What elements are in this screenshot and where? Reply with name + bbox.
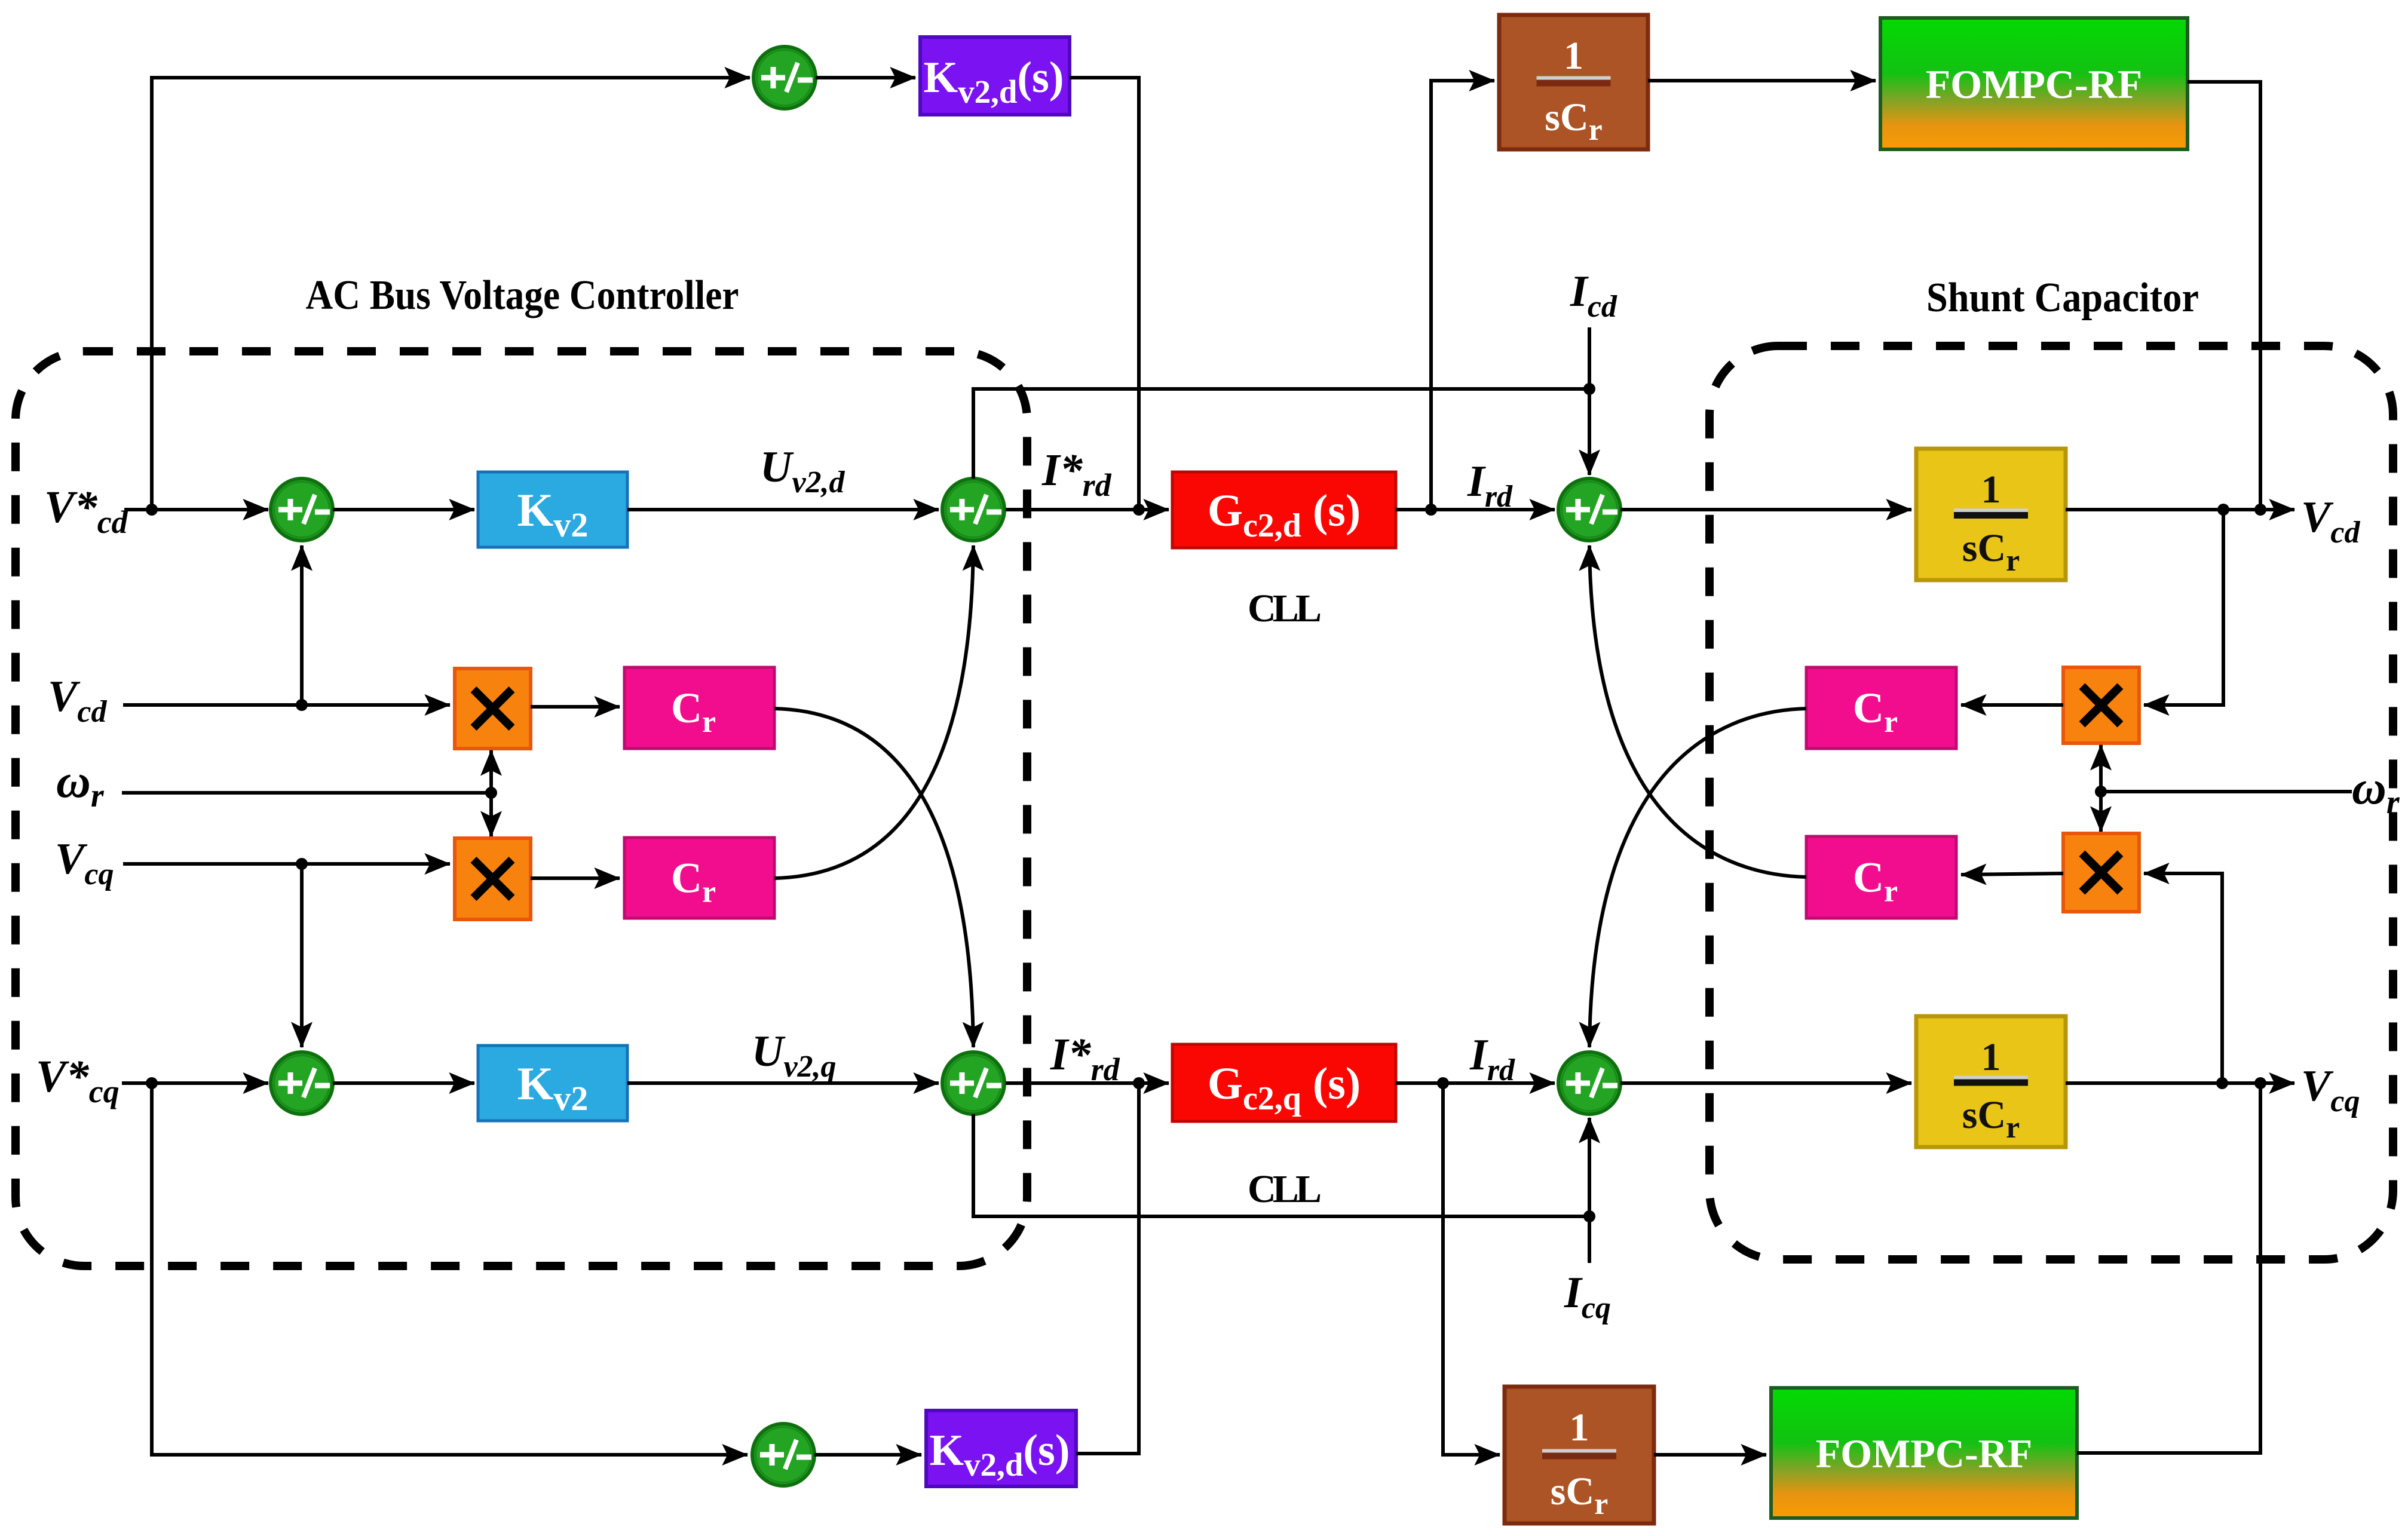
wire X left 1 to Cr left 1 [531,705,620,709]
node dot Vcd branch to multiplier [2217,504,2229,516]
svg-text:FOMPC-RF: FOMPC-RF [1926,62,2143,107]
svg-text:CLL: CLL [1248,1167,1322,1211]
curve Cr right 2 to sum S4 bottom (cross-coupling) [1589,545,1806,877]
svg-text:AC Bus Voltage Controller: AC Bus Voltage Controller [306,272,739,318]
block 1/sCr q-axis (yellow) [1916,1016,2066,1147]
wire S5 to Kv2 block (q) [333,1081,474,1085]
node A: V*cd branch dot [146,504,158,516]
wire omega_r left down into X2 [489,793,493,836]
node dot V*cq branch [146,1077,158,1089]
wire Gc2,d output to sum S4 (I_rd) [1396,508,1555,511]
wire omega_r right down into X2 [2099,792,2103,832]
wire Vcq up to right multiplier X2 [2144,873,2222,1083]
svg-text:CLL: CLL [1248,587,1322,630]
wire S7 to bottom K_v2,d(s) [814,1453,921,1457]
summing junction S6 (+/-) [942,1052,1004,1114]
wire top feedback from V*cd branch up and right to sum S1 [152,78,750,510]
wire X right 2 to Cr right 2 [1961,873,2063,875]
block Cr left 1 (pink) [624,667,774,749]
curve Cr right 1 to sum S8 top (cross-coupling) [1589,709,1806,1047]
svg-text:FOMPC-RF: FOMPC-RF [1816,1431,2033,1476]
node dot Vcq branch to S5 [296,858,308,870]
summing junction S3 (+/-) [942,479,1004,541]
wire Vcd branch up into sum S2 [300,545,304,705]
curve Cr left 2 to sum S3 bottom (cross-coupling) [774,545,973,878]
wire FOMPC-RF bottom output up to Vcq node [2077,1083,2260,1453]
dashed region Shunt Capacitor [1710,346,2393,1259]
wire yellow output to Vcd output arrow [2066,508,2294,511]
wire V*cd input to sum S2 [124,508,268,511]
node dot K_v2,d bottom output joins I*rd line [1133,1077,1145,1089]
wire S8 to yellow 1/sCr (q) [1620,1081,1911,1085]
wire bottom K_v2,d output right and up to I*rd line [1076,1083,1139,1454]
wire S6 to Gc2,q block [1006,1081,1169,1085]
wire X right 1 to Cr right 1 [1961,703,2063,707]
summing junction S5 (+/-) [271,1052,333,1114]
svg-text:1: 1 [1564,34,1583,78]
svg-text:1: 1 [1981,468,2001,511]
svg-text:1: 1 [1570,1406,1589,1449]
block K_v2,d(s) bottom (purple) [926,1411,1076,1486]
wire FOMPC-RF top output down to Vcd node [2188,82,2260,510]
svg-text:Shunt Capacitor: Shunt Capacitor [1926,275,2199,321]
block 1/sCr d-axis (yellow) [1916,449,2066,580]
wire omega_r right input [2101,790,2352,793]
wire Gc2,q output to sum S8 (I_rd) [1396,1081,1555,1085]
summing junction S7 (+/-) [752,1424,814,1486]
block Cr left 2 (pink) [624,838,774,918]
wire I_cq up into sum S8 [1588,1118,1591,1263]
wire S3 top feed from I_cd line (corner at y=651) [973,389,1587,479]
wire bottom feedback from V*cq branch down to sum S7 [152,1083,747,1455]
wire S3 to Gc2,d block [1006,508,1169,511]
block K_v2,d(s) top (purple) [920,37,1070,115]
wire Vcd input to left multiplier X1 [123,703,450,707]
wire brown 1/sCr to FOMPC-RF top [1648,79,1876,82]
svg-text:1: 1 [1981,1035,2001,1079]
block FOMPC-RF top (gradient) [1880,18,2188,149]
block multiplier X left 1 (orange) [455,669,531,749]
wire Vcq input to left multiplier X2 [123,862,450,866]
wire I_cd down into sum S4 [1588,327,1591,475]
block 1/sCr top (brown) [1499,15,1648,149]
wire X left 2 to Cr left 2 [531,876,620,880]
wire K_v2,d(s) output right and down to I*rd node [1070,78,1139,510]
summing junction S4 (+/-) [1558,479,1620,541]
node dot I_cq feed junction [1583,1210,1595,1222]
wire S2 to Kv2 block (d) [333,508,474,511]
dashed region AC Bus Voltage Controller [16,351,1027,1266]
node dot I_cd feed junction [1583,383,1595,395]
summing junction S1 (+/-) [753,47,816,109]
wire omega_r right up into X1 [2099,745,2103,792]
summing junction S8 (+/-) [1558,1052,1620,1114]
node dot K_v2,d output joins I*rd line [1133,504,1145,516]
block Cr right 1 (pink) [1806,667,1956,749]
node dot Gc2,d output branch to 1/sCr [1425,504,1437,516]
node dot Gc2,q output branch to 1/sCr [1437,1077,1449,1089]
block Kv2 d-axis (blue) [478,472,627,547]
wire bottom brown to FOMPC-RF bottom [1654,1453,1766,1457]
block 1/sCr bottom (brown) [1505,1387,1654,1523]
node dot Vcq branch from FOMPC [2254,1077,2266,1089]
block multiplier X right 2 (orange) [2063,833,2139,912]
block Gc2,q(s) (red) [1172,1044,1396,1121]
block Kv2 q-axis (blue) [478,1046,627,1121]
block FOMPC-RF bottom (gradient) [1771,1388,2077,1518]
wire S4 to yellow 1/sCr (d) [1620,508,1911,511]
node dot omega_r right branch [2095,786,2107,798]
node dot omega_r left branch [485,787,497,799]
node dot Vcd branch from FOMPC [2254,504,2266,516]
wire V*cq input to sum S5 [122,1081,268,1085]
wire Kv2 to sum S3 (U_v2,d) [627,508,939,511]
wire S1 to K_v2,d(s) block [816,76,915,79]
summing junction S2 (+/-) [271,479,333,541]
wire Kv2 to sum S6 (U_v2,q) [627,1081,939,1085]
wire Vcq branch down into sum S5 [300,864,304,1047]
block multiplier X left 2 (orange) [455,838,531,919]
block Cr right 2 (pink) [1806,836,1956,918]
block multiplier X right 1 (orange) [2063,667,2139,743]
wire omega_r left input [122,791,491,795]
wire yellow output to Vcq output arrow [2066,1081,2294,1085]
wire branch down to bottom brown 1/sCr [1443,1083,1500,1455]
curve Cr left 1 to sum S6 top (cross-coupling) [774,709,973,1047]
wire S6 bottom feed to I_cq line (corner at y=2036) [973,1114,1587,1216]
node dot Vcq branch to multiplier [2216,1077,2228,1089]
wire omega_r left up into X1 [489,750,493,793]
node dot Vcd branch to S2 [296,699,308,711]
wire branch up to brown 1/sCr block [1431,81,1494,510]
wire Vcd down to right multiplier X1 [2144,510,2223,705]
block Gc2,d(s) (red) [1172,472,1396,548]
